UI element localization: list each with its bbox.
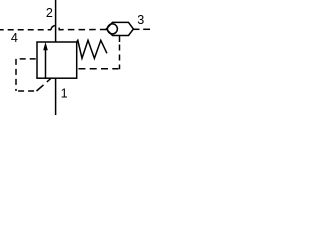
wire port 2 line	[55, 0, 57, 42]
check valve body	[106, 22, 133, 35]
svg-text:3: 3	[137, 13, 144, 27]
wire port 4 dashed line left segment	[0, 29, 51, 31]
pilot line diagonal drain	[37, 78, 52, 91]
svg-text:1: 1	[61, 87, 68, 101]
svg-text:2: 2	[46, 6, 53, 20]
pilot line left vertical	[15, 59, 17, 91]
wire port 3 stub	[133, 28, 139, 30]
wire port 3 dash	[143, 28, 150, 30]
wire check valve bottom stub	[119, 36, 121, 43]
wire hop over port 2 line and dashed continuation to check valve	[51, 26, 106, 30]
pilot line bottom horizontal	[16, 90, 36, 92]
svg-text:4: 4	[11, 31, 18, 45]
pilot line vertical below check valve	[119, 45, 121, 70]
check valve ball	[107, 24, 117, 34]
pilot line horizontal right of valve box	[77, 68, 119, 70]
wire port 1 line	[55, 78, 57, 115]
spring	[77, 40, 107, 58]
pilot line left horizontal	[16, 58, 37, 60]
valve box V1	[37, 42, 77, 78]
flow arrow inside valve	[44, 43, 48, 78]
